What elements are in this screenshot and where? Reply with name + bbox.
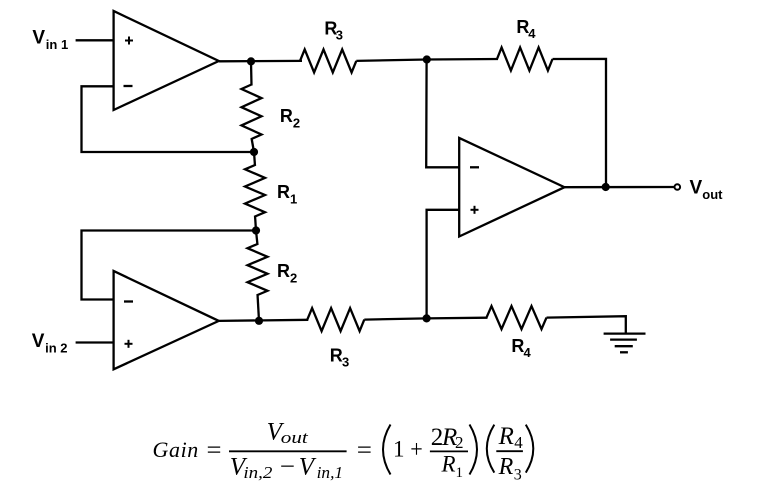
node A junction dot xyxy=(247,57,255,65)
svg-text:in,1: in,1 xyxy=(317,463,344,482)
wire U1 feedback loop xyxy=(82,86,255,152)
svg-text:2: 2 xyxy=(290,271,297,286)
svg-text:3: 3 xyxy=(514,466,522,483)
wire R3 bottom to node E xyxy=(364,318,427,319)
ground xyxy=(604,334,646,353)
svg-text:in 2: in 2 xyxy=(45,340,67,355)
node B junction dot xyxy=(250,148,258,156)
resistor R3 bottom xyxy=(307,308,364,331)
svg-text:3: 3 xyxy=(342,354,349,369)
resistor R2 lower xyxy=(248,244,268,295)
wire R1 to node C xyxy=(255,216,256,231)
resistor R2 upper xyxy=(242,85,262,140)
node D junction dot xyxy=(255,317,263,325)
node F junction dot xyxy=(423,55,431,63)
svg-text:V: V xyxy=(690,178,703,199)
svg-text:1: 1 xyxy=(290,191,297,206)
U3 plus pin symbol xyxy=(471,206,479,214)
svg-text:2: 2 xyxy=(293,115,300,130)
svg-text:R: R xyxy=(441,451,456,476)
wire R2 lower to node D xyxy=(258,294,260,321)
wire node E to R4 bottom xyxy=(427,317,488,320)
formula Gain equation xyxy=(153,419,534,484)
svg-text:Gain: Gain xyxy=(153,437,199,462)
svg-text:R: R xyxy=(498,423,514,450)
svg-text:R: R xyxy=(280,106,293,126)
U2 plus pin symbol xyxy=(125,340,133,348)
svg-text:V: V xyxy=(32,27,45,48)
svg-text:=: = xyxy=(357,437,372,464)
resistor R1 xyxy=(245,165,265,217)
wire node F down to U3 inverting input xyxy=(426,60,459,168)
svg-text:out: out xyxy=(281,428,310,447)
wire node A to R2 upper xyxy=(250,62,253,86)
U1 plus pin symbol xyxy=(125,37,133,45)
wire node B to R1 xyxy=(254,152,255,166)
wire R4 bottom to ground xyxy=(547,316,626,333)
svg-text:R: R xyxy=(511,336,524,356)
op-amp U3 xyxy=(459,138,564,237)
op-amp U1 xyxy=(114,11,219,110)
svg-text:R: R xyxy=(498,454,514,480)
node G output junction dot xyxy=(602,183,610,191)
svg-text:−: − xyxy=(280,454,295,481)
resistor R3 top xyxy=(300,49,356,72)
svg-text:4: 4 xyxy=(528,26,536,41)
svg-text:in 1: in 1 xyxy=(46,37,68,52)
svg-text:3: 3 xyxy=(336,27,343,42)
wire node C to R2 lower xyxy=(256,231,258,246)
svg-text:4: 4 xyxy=(524,345,532,360)
svg-text:in,2: in,2 xyxy=(243,463,273,482)
wire R2 upper to node B xyxy=(252,138,255,152)
svg-text:R: R xyxy=(330,346,343,366)
svg-text:2: 2 xyxy=(455,433,464,452)
wire U1 output xyxy=(219,60,302,63)
wire node E up to U3 non-inverting input xyxy=(427,210,460,319)
U1 minus pin symbol xyxy=(124,85,133,87)
svg-text:4: 4 xyxy=(514,433,523,452)
node E junction dot xyxy=(423,314,431,322)
wire U2 feedback loop xyxy=(82,231,257,300)
wire U3 output xyxy=(565,186,675,188)
Vout terminal circle xyxy=(675,184,681,190)
svg-text:R: R xyxy=(277,182,290,202)
svg-text:=: = xyxy=(207,437,222,464)
wire U2 output xyxy=(219,320,308,321)
resistor R4 bottom xyxy=(487,306,547,329)
U2 minus pin symbol xyxy=(124,300,133,302)
wire node F to R4 xyxy=(427,58,498,61)
node C junction dot xyxy=(252,226,260,234)
wire Vin2 input xyxy=(76,341,114,343)
U3 minus pin symbol xyxy=(470,166,479,168)
svg-text:1: 1 xyxy=(393,437,405,462)
svg-text:1: 1 xyxy=(456,465,464,481)
svg-text:R: R xyxy=(277,261,290,281)
svg-text:V: V xyxy=(32,331,45,352)
wire Vin1 input xyxy=(76,39,114,41)
svg-text:+: + xyxy=(410,437,423,464)
resistor R4 top xyxy=(497,48,553,71)
svg-text:out: out xyxy=(702,187,723,202)
op-amp U2 xyxy=(114,271,219,369)
wire R3 to node F xyxy=(356,60,427,61)
wire R4 to right vertical xyxy=(553,59,607,187)
